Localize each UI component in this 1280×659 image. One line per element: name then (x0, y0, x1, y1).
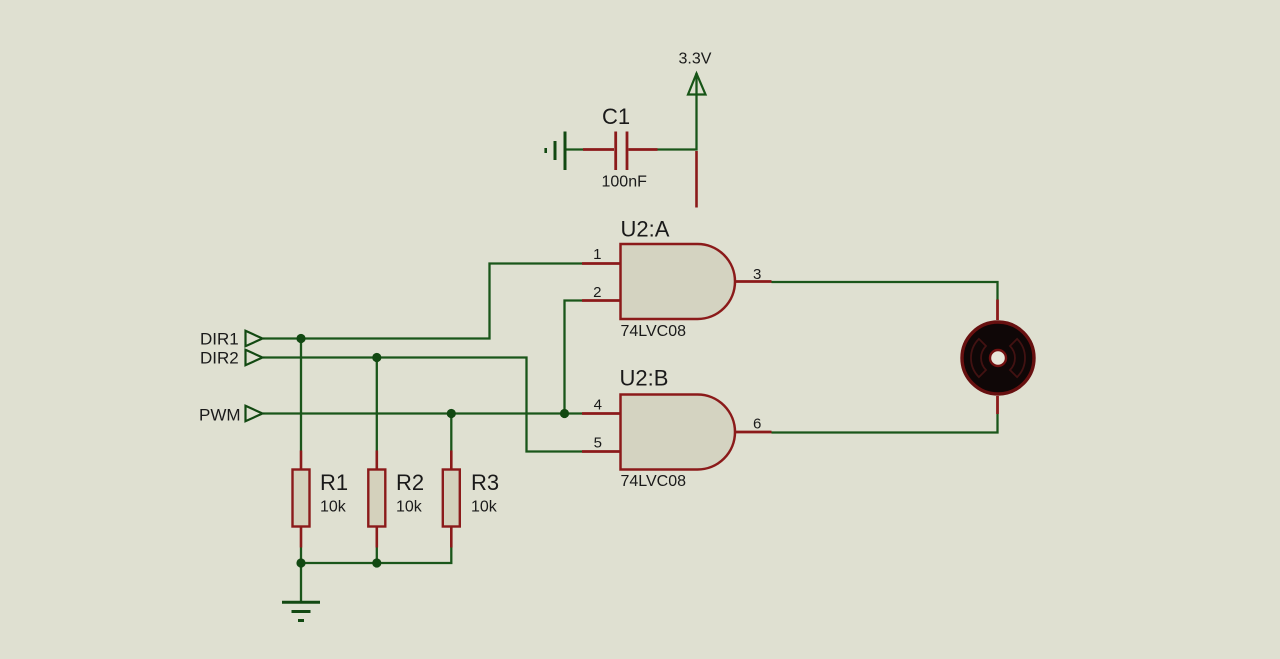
svg-text:DIR1: DIR1 (200, 330, 239, 349)
svg-text:10k: 10k (396, 499, 423, 516)
svg-text:R1: R1 (320, 470, 348, 495)
svg-text:74LVC08: 74LVC08 (621, 323, 687, 340)
svg-text:C1: C1 (602, 104, 630, 129)
svg-text:PWM: PWM (199, 406, 241, 425)
svg-text:10k: 10k (471, 499, 498, 516)
svg-text:U2:A: U2:A (621, 217, 670, 242)
svg-text:74LVC08: 74LVC08 (621, 473, 687, 490)
svg-text:100nF: 100nF (602, 174, 648, 191)
svg-text:R2: R2 (396, 470, 424, 495)
svg-text:10k: 10k (320, 499, 347, 516)
svg-text:U2:B: U2:B (620, 366, 669, 391)
svg-text:DIR2: DIR2 (200, 349, 239, 368)
svg-text:3.3V: 3.3V (679, 51, 712, 68)
svg-text:1: 1 (593, 246, 601, 263)
svg-text:5: 5 (594, 435, 602, 452)
svg-text:2: 2 (593, 284, 601, 301)
svg-text:4: 4 (594, 397, 602, 414)
svg-text:3: 3 (753, 266, 761, 283)
svg-text:R3: R3 (471, 470, 499, 495)
svg-text:6: 6 (753, 416, 761, 433)
